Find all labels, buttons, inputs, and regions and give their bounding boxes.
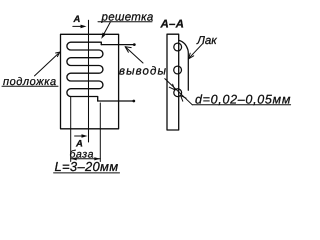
label Лак leader <box>188 44 202 59</box>
svg-text:А: А <box>73 14 81 25</box>
substrate rectangle <box>61 34 119 129</box>
section strip rectangle <box>167 34 179 130</box>
dimension база extension line right <box>99 103 101 162</box>
bottom lead wire <box>98 100 134 102</box>
top lead wire <box>101 44 134 46</box>
svg-text:А–А: А–А <box>160 18 185 30</box>
svg-text:Лак: Лак <box>196 35 217 47</box>
wire cross-section circle 1 <box>174 43 182 51</box>
bottom lead solder dot <box>132 100 135 103</box>
label подложка leader <box>2 52 60 86</box>
underline d=0,02-0,05мм <box>192 104 290 106</box>
svg-text:d=0,02–0,05мм: d=0,02–0,05мм <box>195 93 291 107</box>
wire grid meander <box>67 42 103 101</box>
lacquer coating outline <box>179 40 188 90</box>
svg-text:решетка: решетка <box>101 11 154 23</box>
underline L=3-20мм <box>54 172 120 174</box>
section line A-A <box>88 20 90 142</box>
wire cross-section circle 2 <box>174 66 182 74</box>
label решетка leader <box>98 22 152 39</box>
dimension база extension line left <box>70 97 72 162</box>
svg-text:L=3–20мм: L=3–20мм <box>55 159 119 174</box>
section marker A top arrow <box>73 25 87 29</box>
dimension d leader through circle 3 <box>165 79 291 105</box>
svg-text:подложка: подложка <box>3 76 57 88</box>
top lead solder dot <box>133 43 136 46</box>
dimension база line with arrows <box>71 157 101 160</box>
wire cross-section circle 3 <box>174 89 182 97</box>
svg-text:выводы: выводы <box>119 65 167 77</box>
section marker A bottom arrow <box>75 134 88 138</box>
label выводы leader <box>125 47 143 63</box>
